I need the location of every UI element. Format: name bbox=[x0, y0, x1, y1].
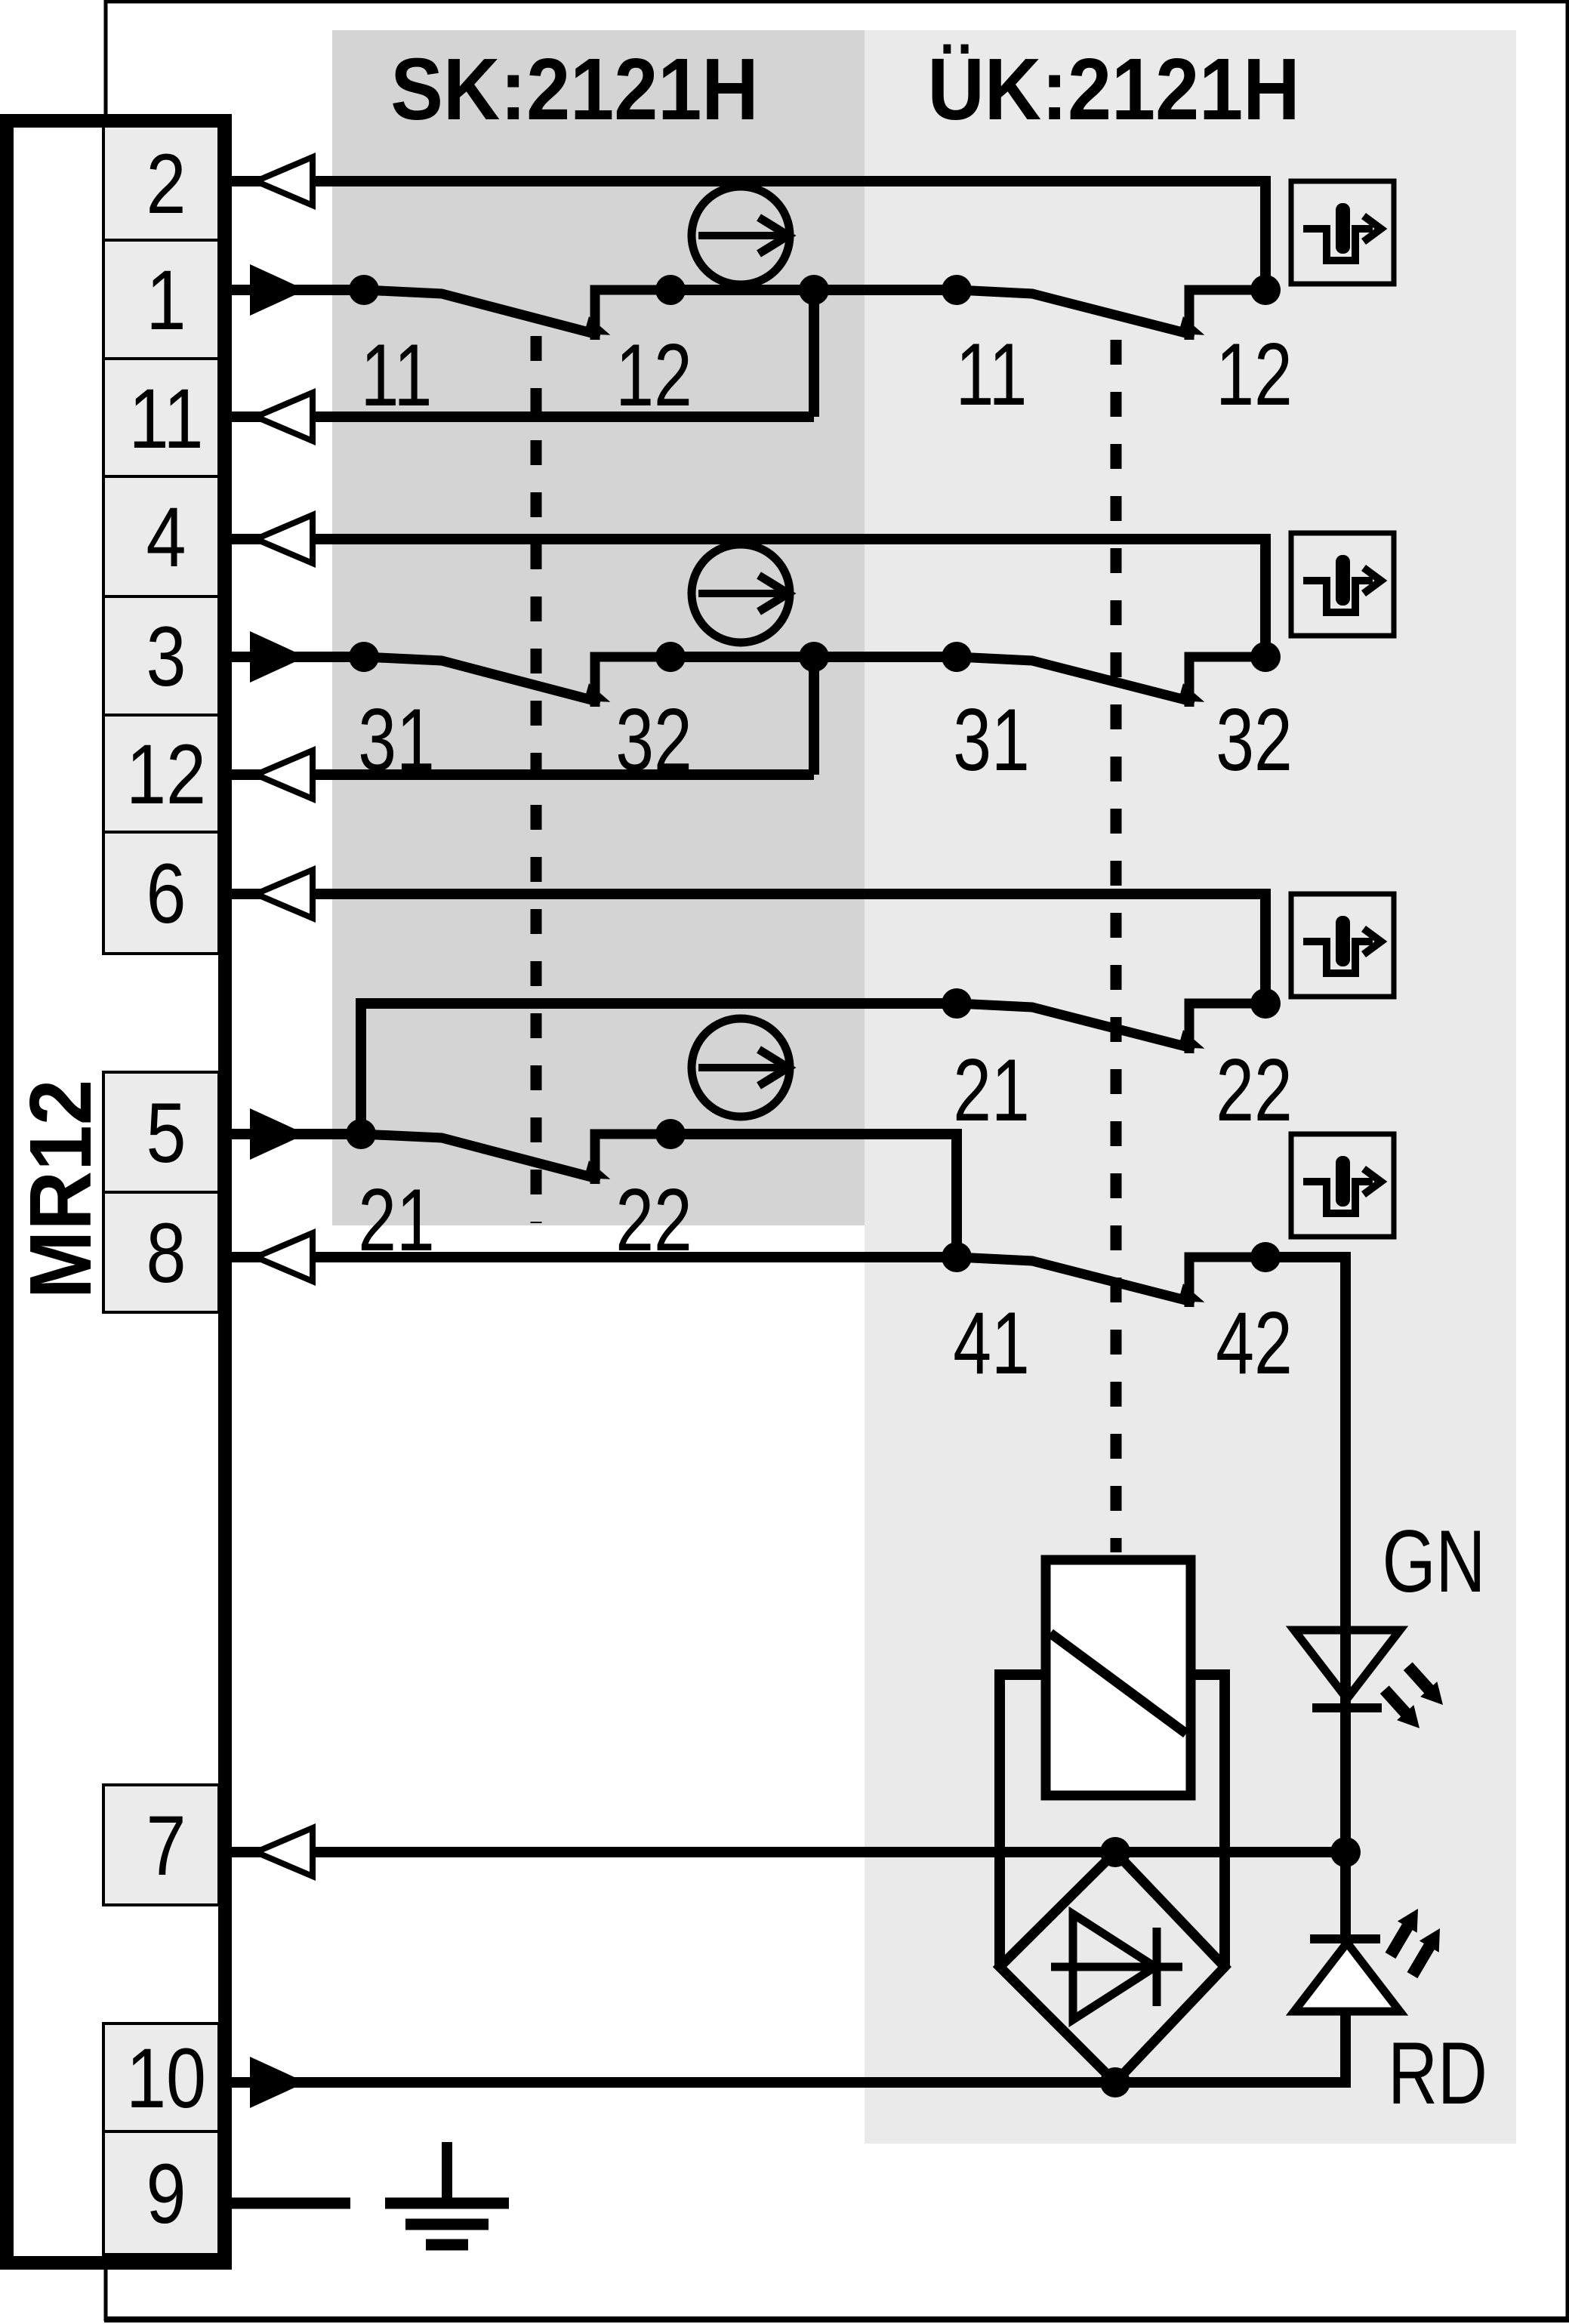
arrow out pin 12 bbox=[256, 751, 313, 799]
svg-text:ÜK:2121H: ÜK:2121H bbox=[927, 41, 1299, 138]
LED RD triangle bbox=[1294, 1943, 1400, 2011]
node row3 end bbox=[1250, 988, 1281, 1019]
pin box 1 bbox=[103, 240, 219, 359]
contact 32 stub bbox=[595, 657, 670, 707]
arrow out pin 11 bbox=[256, 393, 313, 441]
wire pin 6 bbox=[227, 889, 1265, 899]
svg-text:32: 32 bbox=[1216, 691, 1293, 789]
wire pin 11 riser bbox=[809, 290, 819, 417]
wire pin 7 bbox=[227, 1847, 1346, 1857]
current source circle row1 bbox=[692, 186, 790, 285]
dashed separator UK bbox=[1111, 340, 1122, 1552]
svg-text:2: 2 bbox=[146, 137, 186, 232]
node row4 end bbox=[1250, 1242, 1281, 1272]
svg-text:11: 11 bbox=[129, 372, 204, 467]
svg-text:6: 6 bbox=[146, 847, 186, 942]
node pivot UK 11 bbox=[942, 275, 972, 305]
contact 12 stub bbox=[595, 290, 670, 340]
svg-text:31: 31 bbox=[358, 691, 435, 789]
svg-text:41: 41 bbox=[953, 1294, 1030, 1392]
arrow out pin 7 bbox=[256, 1828, 313, 1876]
contact UK 42 stub bbox=[1189, 1257, 1265, 1307]
wire pin 1 bbox=[227, 285, 364, 295]
svg-text:11: 11 bbox=[361, 326, 433, 424]
pin box 8 bbox=[103, 1192, 219, 1312]
node pivot UK 31 bbox=[942, 642, 972, 672]
svg-text:12: 12 bbox=[126, 728, 206, 822]
svg-text:MR12: MR12 bbox=[11, 1080, 109, 1299]
UK:2121H shaded panel bbox=[865, 30, 1516, 2144]
contact UK 22 stub bbox=[1189, 1003, 1265, 1053]
svg-text:12: 12 bbox=[615, 326, 692, 424]
frame bottom edge bbox=[104, 2316, 1569, 2322]
jack icon box row4 bbox=[1291, 1134, 1394, 1237]
switch blade SK 31-32 bbox=[364, 657, 600, 702]
svg-text:GN: GN bbox=[1383, 1512, 1486, 1610]
contact UK 12 stub bbox=[1189, 290, 1265, 340]
pin box 12 bbox=[103, 715, 219, 832]
svg-text:RD: RD bbox=[1388, 2024, 1487, 2122]
arrow in pin 3 bbox=[250, 631, 306, 683]
wire pin 11 bbox=[227, 411, 814, 422]
SK:2121H shaded panel bbox=[332, 30, 865, 1225]
node pivot UK 21 bbox=[942, 988, 972, 1019]
svg-text:32: 32 bbox=[615, 691, 692, 789]
arrow out pin 6 bbox=[256, 870, 313, 918]
bridge rectifier diamond bbox=[1000, 1852, 1225, 2082]
svg-text:21: 21 bbox=[953, 1041, 1030, 1139]
node bridge bottom bbox=[1100, 2067, 1130, 2097]
wire pin2 corner down bbox=[1260, 176, 1271, 290]
LED GN triangle bbox=[1294, 1630, 1400, 1699]
svg-text:9: 9 bbox=[146, 2147, 186, 2242]
jack icon box row1 bbox=[1291, 181, 1394, 284]
switch blade SK 21-22 bbox=[361, 1134, 600, 1179]
wire RD bottom corner bbox=[1115, 2011, 1346, 2082]
wire pin 3 bbox=[227, 652, 364, 662]
node SK 22 bbox=[655, 1119, 686, 1149]
svg-text:11: 11 bbox=[956, 325, 1028, 424]
svg-text:7: 7 bbox=[146, 1799, 186, 1894]
node pin12 tap bbox=[799, 642, 829, 672]
arrow in pin 5 bbox=[250, 1108, 306, 1160]
switch blade UK 11-12 bbox=[957, 290, 1194, 335]
pin box 6 bbox=[103, 832, 219, 954]
svg-text:12: 12 bbox=[1216, 325, 1293, 424]
svg-text:5: 5 bbox=[146, 1086, 186, 1181]
wire 32 to UK bbox=[670, 652, 957, 662]
branch wire from pin 5 bbox=[361, 1003, 957, 1134]
pin box 2 bbox=[103, 126, 219, 240]
svg-text:22: 22 bbox=[1216, 1041, 1293, 1139]
svg-text:8: 8 bbox=[146, 1207, 186, 1301]
dashed separator SK bbox=[531, 336, 542, 1223]
arrow in pin 1 bbox=[250, 264, 306, 316]
ground symbol bbox=[442, 2142, 452, 2203]
node pivot SK 21 bbox=[346, 1119, 376, 1149]
arrow out pin 8 bbox=[256, 1233, 313, 1281]
svg-text:1: 1 bbox=[146, 254, 186, 348]
node row1 end bbox=[1250, 275, 1281, 305]
contact SK 22 stub bbox=[595, 1134, 670, 1184]
arrow out pin 4 bbox=[256, 515, 313, 563]
wire pin 2 bbox=[227, 176, 1265, 186]
switch blade UK 31-32 bbox=[957, 657, 1194, 702]
node LED branch top bbox=[1330, 1837, 1361, 1867]
LED RD light arrows bbox=[1381, 1903, 1450, 1980]
wire pin4 corner down bbox=[1260, 534, 1271, 657]
current source circle row2 bbox=[692, 544, 790, 643]
coil diagonal bbox=[1050, 1633, 1186, 1734]
svg-text:31: 31 bbox=[953, 691, 1030, 789]
wire 12 to UK bbox=[670, 285, 957, 295]
pin box 3 bbox=[103, 596, 219, 715]
node pivot SK 11 bbox=[349, 275, 379, 305]
node bridge top bbox=[1100, 1837, 1130, 1867]
node SK 32 bbox=[655, 642, 686, 672]
wire row4 to LED branch bbox=[1265, 1257, 1346, 1852]
relay coil K bbox=[1046, 1560, 1191, 1795]
svg-text:3: 3 bbox=[146, 610, 186, 704]
node SK 12 bbox=[655, 275, 686, 305]
yoke left bbox=[1000, 1675, 1046, 1967]
blade tip arrowhead bbox=[584, 316, 613, 341]
node row2 end bbox=[1250, 642, 1281, 672]
bridge diode symbol bbox=[1051, 1963, 1182, 1971]
jack icon box row3 bbox=[1291, 894, 1394, 997]
pin box 11 bbox=[103, 359, 219, 476]
wire pin 4 bbox=[227, 534, 1265, 544]
svg-text:10: 10 bbox=[126, 2032, 206, 2126]
pin box 7 bbox=[103, 1785, 219, 1905]
LED GN cathode bar bbox=[1312, 1703, 1382, 1712]
wire pin 12 bbox=[227, 769, 814, 780]
switch blade UK 21-22 bbox=[957, 1003, 1194, 1049]
wire pin 5 bbox=[227, 1129, 364, 1139]
LED RD cathode bar bbox=[1310, 1934, 1380, 1943]
wire SK22 right and corner down to pin8 row bbox=[670, 1134, 957, 1257]
wire pin 10 bbox=[227, 2077, 1115, 2088]
node pivot UK 41 bbox=[942, 1242, 972, 1272]
jack icon box row2 bbox=[1291, 533, 1394, 636]
switch blade UK 41-42 bbox=[957, 1257, 1194, 1302]
yoke right bbox=[1191, 1675, 1225, 1967]
wire pin6 corner down bbox=[1260, 889, 1271, 1003]
svg-text:4: 4 bbox=[146, 491, 186, 585]
wire pin 8 bbox=[227, 1252, 957, 1262]
LED GN light arrows bbox=[1376, 1659, 1452, 1736]
svg-text:SK:2121H: SK:2121H bbox=[390, 41, 758, 138]
wire RD top bbox=[1340, 1852, 1351, 1939]
svg-text:42: 42 bbox=[1216, 1294, 1293, 1392]
pin box 9 bbox=[103, 2131, 219, 2255]
current source circle row3 bbox=[692, 1019, 790, 1117]
contact UK 32 stub bbox=[1189, 657, 1265, 707]
pin box 5 bbox=[103, 1072, 219, 1192]
node pin11 tap bbox=[799, 275, 829, 305]
connector MR12 body bbox=[7, 121, 225, 2263]
node pivot SK 31 bbox=[349, 642, 379, 672]
switch blade SK 11-12 bbox=[364, 290, 600, 335]
pin box 10 bbox=[103, 2023, 219, 2131]
arrow out pin 2 bbox=[256, 157, 313, 205]
pin box 4 bbox=[103, 476, 219, 596]
wire pin 9 bbox=[227, 2198, 350, 2209]
wire pin 12 riser bbox=[809, 657, 819, 775]
arrow in pin 10 bbox=[250, 2057, 306, 2108]
